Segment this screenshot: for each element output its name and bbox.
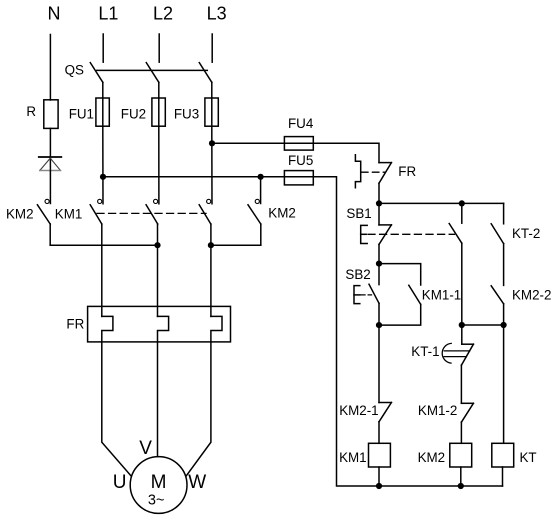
svg-text:M: M — [151, 472, 167, 493]
node junction KM2R-L3 — [208, 242, 214, 248]
svg-text:FR: FR — [66, 317, 84, 332]
node junction SB2 top — [376, 261, 382, 267]
wire KM2 right bottom to L3 — [211, 244, 261, 246]
svg-text:N: N — [48, 4, 61, 24]
svg-text:L2: L2 — [153, 4, 173, 24]
thermal overload FR block — [88, 306, 231, 342]
wire L1 contact to FR heater — [101, 224, 103, 316]
wire U phase to motor — [102, 342, 132, 476]
wire KT coil to bus — [502, 467, 504, 486]
node junction SB2 bottom — [376, 322, 382, 328]
thermal contact FR (NC) — [379, 163, 391, 204]
wire L2 terminal drop — [158, 34, 160, 62]
FR contact link dashed — [362, 171, 386, 173]
contact KT-1 (delayed NC) — [442, 325, 473, 403]
coil KT — [492, 443, 514, 467]
node junction FR-branch — [376, 200, 382, 206]
svg-text:FU5: FU5 — [288, 153, 313, 168]
SB2 link dashed — [361, 294, 372, 296]
svg-text:SB2: SB2 — [345, 267, 370, 282]
wire L2 contact to FR heater — [157, 224, 159, 316]
svg-text:KM1-1: KM1-1 — [422, 288, 461, 303]
FR heater element 3 — [211, 316, 222, 342]
wire L3 contact to FR heater — [210, 224, 212, 316]
node junction S bottom — [501, 322, 507, 328]
contact KM1-1 (NO holding) — [379, 264, 421, 326]
switch QS pole 3 blade — [199, 63, 212, 83]
FR contact actuator bracket — [355, 155, 360, 188]
contactor KM1 pole 1 — [90, 199, 102, 224]
svg-text:KM2: KM2 — [268, 205, 296, 220]
switch QS pole 2 blade — [146, 63, 159, 83]
svg-text:KT-1: KT-1 — [411, 344, 439, 359]
svg-text:KM1: KM1 — [55, 206, 83, 221]
wire KT column — [503, 325, 505, 443]
svg-text:3~: 3~ — [148, 493, 165, 509]
contact KM2-2 (NO) — [491, 286, 503, 325]
svg-text:FU3: FU3 — [174, 106, 199, 121]
node junction Q bottom — [459, 322, 465, 328]
wire KM1 coil to bus — [378, 467, 380, 486]
wire control bus FU4 — [212, 143, 379, 162]
SB1 button bracket — [361, 225, 368, 243]
wire L1 terminal drop — [102, 34, 104, 62]
svg-text:L3: L3 — [207, 4, 227, 24]
contact KM2-1 (NC interlock) — [379, 325, 391, 443]
wire KM2 coil to bus — [460, 467, 462, 486]
wire control bus FU5 — [103, 177, 503, 486]
fuse FU5 — [284, 171, 313, 185]
diode VD triangle — [40, 158, 61, 170]
FR heater element 1 — [102, 316, 113, 342]
node junction branch-Q — [459, 200, 465, 206]
wire V phase to motor — [157, 342, 159, 457]
svg-text:QS: QS — [65, 62, 84, 77]
node junction L1-FU5 — [100, 174, 106, 180]
node junction KM2L-L2 — [154, 242, 160, 248]
wire N diode to KM2 contact — [49, 171, 51, 204]
wire L3 terminal drop — [211, 34, 213, 62]
wire N resistor to diode — [49, 128, 51, 170]
diode VD cathode bar — [39, 156, 62, 158]
wire L1 QS to FU1 — [102, 82, 104, 98]
contact KM1-2 (NC interlock) — [461, 403, 473, 443]
switch QS pole 1 blade — [90, 63, 103, 83]
svg-text:L1: L1 — [98, 4, 118, 24]
coil KM1 — [369, 443, 391, 467]
svg-text:KM2: KM2 — [418, 450, 446, 465]
contactor KM1 pole 2 — [146, 199, 158, 224]
svg-text:FU1: FU1 — [69, 106, 94, 121]
wire W phase to motor — [186, 342, 211, 476]
node junction L3-FU4 — [209, 140, 215, 146]
svg-text:KM2: KM2 — [6, 206, 34, 221]
contactor KM2 right contact — [248, 177, 261, 245]
wire Q-S junction bar — [462, 324, 504, 326]
resistor R — [44, 100, 58, 129]
contactor KM2 left contact — [37, 199, 50, 245]
svg-text:KT-2: KT-2 — [512, 226, 540, 241]
svg-text:R: R — [26, 104, 36, 119]
wire L3 FU3 down — [211, 126, 213, 204]
pushbutton SB1 (NC stop) — [379, 203, 391, 263]
SB2 button bracket — [354, 286, 360, 304]
svg-text:KM1-2: KM1-2 — [418, 403, 457, 418]
node junction KM1 bus — [376, 483, 382, 489]
contact SB1-NO (Q column) — [449, 203, 462, 325]
motor M circle — [130, 457, 187, 514]
svg-text:FR: FR — [398, 164, 416, 179]
fuse FU3 — [205, 98, 218, 126]
SB1 link dashed — [368, 233, 455, 235]
node junction KM2 bus — [458, 483, 464, 489]
svg-text:KM2-2: KM2-2 — [512, 287, 551, 302]
wire L3 QS to FU3 — [211, 82, 213, 98]
svg-text:SB1: SB1 — [346, 206, 371, 221]
wire L2 FU2 down — [158, 126, 160, 204]
pushbutton SB2 (NO start) — [369, 264, 379, 326]
svg-text:KM1: KM1 — [339, 450, 367, 465]
FR heater element 2 — [158, 316, 169, 342]
fuse FU4 — [284, 137, 313, 151]
wire L1 FU1 to bus — [102, 126, 104, 204]
node junction KM2 right top — [258, 174, 264, 180]
contactor KM1 pole 3 — [199, 199, 211, 224]
svg-text:FU4: FU4 — [288, 116, 314, 131]
switch QS linkage bar — [97, 69, 208, 71]
wire L2 QS to FU2 — [158, 82, 160, 98]
wire N terminal drop — [49, 35, 51, 101]
svg-text:FU2: FU2 — [121, 106, 146, 121]
svg-text:V: V — [139, 438, 152, 459]
fuse FU2 — [152, 98, 165, 126]
wire control branch top — [379, 202, 504, 204]
svg-text:W: W — [188, 472, 206, 493]
wire KM2 left bottom to L2 — [50, 244, 157, 246]
contact KT-2 (delay) — [491, 203, 503, 285]
svg-text:U: U — [113, 472, 127, 493]
coil KM2 — [450, 443, 472, 467]
svg-text:KM2-1: KM2-1 — [339, 403, 378, 418]
contactor KM1 linkage dashed — [97, 212, 206, 214]
fuse FU1 — [96, 98, 109, 126]
svg-text:KT: KT — [520, 450, 537, 465]
